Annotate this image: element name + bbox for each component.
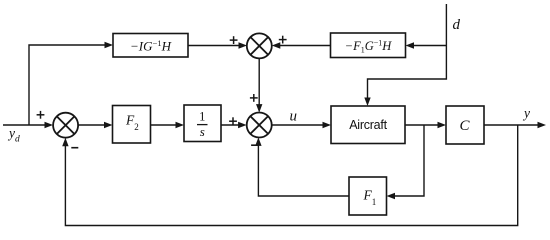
wire: 1/s to sum2 xyxy=(221,124,239,126)
sign + at sum2 top xyxy=(250,94,258,102)
arrow output y xyxy=(538,122,547,128)
svg-text:−IG−1H: −IG−1H xyxy=(130,38,172,54)
svg-text:u: u xyxy=(290,109,298,125)
block Aircraft xyxy=(331,106,405,144)
sign - at sum2 bottom xyxy=(251,144,258,146)
sign - at sum1 bottom xyxy=(71,147,78,149)
svg-text:−F1G−1H: −F1G−1H xyxy=(345,39,393,55)
block -IG^-1H xyxy=(113,34,188,58)
sign + at sum3 left xyxy=(230,36,238,44)
wire: F1 output back to sum2 xyxy=(258,146,349,197)
svg-text:Aircraft: Aircraft xyxy=(349,118,387,132)
wire: top sum down to mid sum xyxy=(258,58,260,105)
block -F1G^-1H xyxy=(331,33,406,58)
wire: output feedback loop xyxy=(65,125,517,226)
block F1 xyxy=(349,177,387,215)
wire: sum1 to F2 xyxy=(78,124,105,126)
wire: C to output y xyxy=(484,124,538,126)
arrow into Aircraft xyxy=(323,122,332,128)
arrow into sum1 from bottom xyxy=(62,138,68,147)
wire: F2 to 1/s xyxy=(151,124,177,126)
wire: input y_d horizontal xyxy=(3,124,45,126)
wire: d vertical xyxy=(368,4,447,98)
summing junction S1 xyxy=(53,113,78,138)
arrow into Aircraft from top (d) xyxy=(364,98,370,107)
svg-text:d: d xyxy=(453,17,461,33)
arrow into F2 xyxy=(104,122,113,128)
arrow into sum1 xyxy=(45,122,54,128)
wire: sum2 to Aircraft (u) xyxy=(272,124,323,126)
arrow into sum2 from bottom xyxy=(255,137,261,146)
wire: Aircraft to C xyxy=(405,124,438,126)
arrow into block FG xyxy=(406,42,415,48)
arrow into sum2 from top xyxy=(256,104,262,113)
sign + at sum3 right xyxy=(279,36,287,44)
arrow into F1 xyxy=(387,193,396,199)
block F2 xyxy=(113,106,151,144)
wire: junction after Aircraft down to F1 xyxy=(394,125,424,196)
block C xyxy=(446,106,484,144)
svg-text:C: C xyxy=(459,118,470,134)
sign + at sum2 left xyxy=(229,117,237,125)
wire: block FG output to top sum xyxy=(280,45,331,47)
arrow into 1/s xyxy=(176,122,185,128)
svg-text:y: y xyxy=(522,106,530,121)
arrow into top sum from left xyxy=(239,42,248,48)
svg-text:1: 1 xyxy=(199,110,205,124)
wire: d line into block FG xyxy=(413,45,446,47)
block 1/s xyxy=(184,105,221,142)
svg-text:yd: yd xyxy=(7,126,20,145)
arrow into sum2 from left xyxy=(238,122,247,128)
sign + at sum1 input xyxy=(37,111,45,119)
summing junction S3 xyxy=(247,33,272,58)
arrow into C xyxy=(438,122,447,128)
summing junction S2 xyxy=(247,113,272,138)
arrow into block IG xyxy=(105,42,114,48)
svg-text:s: s xyxy=(200,124,205,139)
wire: left riser to top path xyxy=(29,45,105,125)
wire: block IG output to top sum xyxy=(188,45,239,47)
arrow into top sum from right xyxy=(272,42,281,48)
